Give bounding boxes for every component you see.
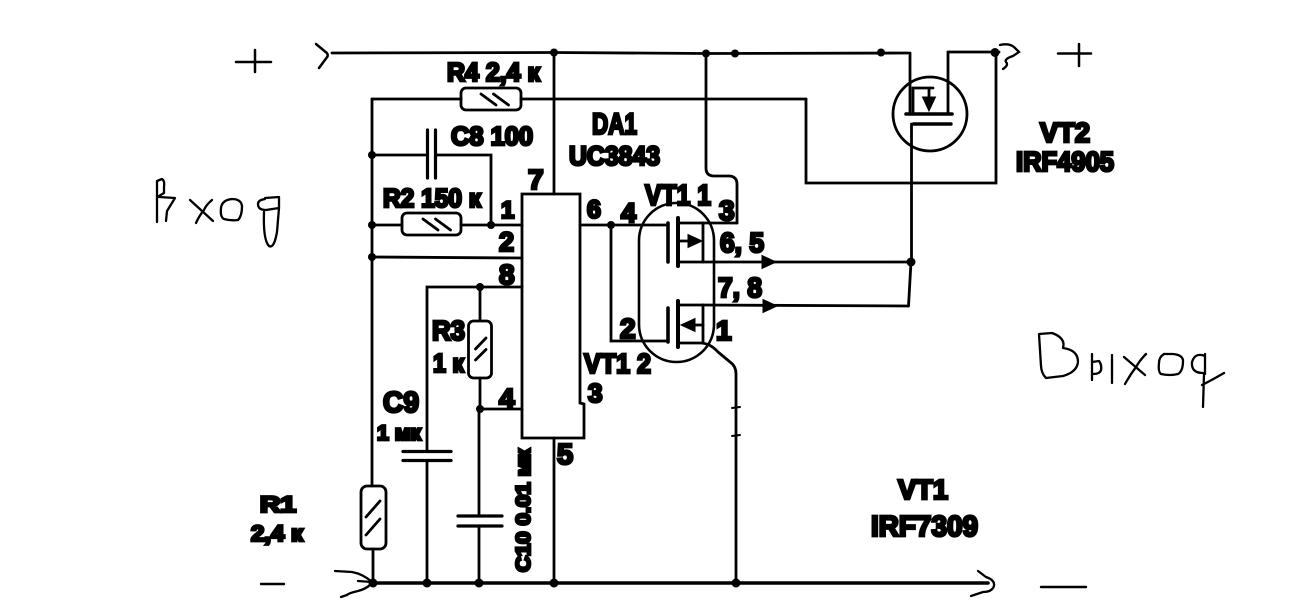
node pin6 split [607, 221, 615, 229]
IC DA1 UC3843 box [522, 194, 584, 438]
wire left bus [372, 99, 373, 583]
svg-text:VT1 2: VT1 2 [584, 348, 651, 379]
plus sign input [236, 50, 271, 72]
wire feedback from output [806, 53, 996, 183]
wire VT2 gate [909, 124, 912, 306]
capacitor C10 [458, 409, 502, 583]
svg-text:1 к: 1 к [433, 348, 465, 378]
svg-text:2: 2 [620, 313, 636, 344]
wire VT1.1 pin3 to rail [706, 54, 737, 224]
svg-text:IRF7309: IRF7309 [871, 511, 978, 543]
resistor R4 [372, 88, 806, 110]
node gnd vt1 [732, 579, 741, 588]
svg-text:4: 4 [621, 198, 636, 228]
svg-text:7: 7 [528, 164, 544, 195]
output arrow bottom [971, 571, 994, 596]
svg-text:2: 2 [499, 227, 514, 257]
wire 6,5 [717, 256, 911, 269]
node gnd C9 [423, 579, 432, 588]
node rail-feedback [991, 48, 1000, 57]
wire 7,8 [703, 300, 908, 313]
svg-text:6, 5: 6, 5 [720, 227, 764, 258]
wire DA1 pin4 [480, 408, 522, 411]
capacitor C9 [403, 452, 451, 584]
minus sign right [1041, 586, 1086, 588]
svg-text:8: 8 [499, 259, 515, 290]
node bus-C8 [368, 151, 376, 159]
svg-text:C10 0.01 мк: C10 0.01 мк [513, 448, 535, 572]
svg-text:4: 4 [499, 383, 515, 414]
capacitor C8 [372, 130, 491, 225]
svg-text:7, 8: 7, 8 [718, 272, 762, 303]
minus sign left [261, 583, 284, 585]
output arrow top [1000, 44, 1019, 69]
node rail-vt1pin3 [702, 50, 710, 58]
svg-text:C8 100: C8 100 [451, 121, 533, 151]
svg-text:3: 3 [719, 195, 735, 226]
wire DA1 pin6 [580, 224, 667, 227]
input arrow [316, 44, 328, 68]
node rail-vt2 [877, 49, 885, 57]
handwritten Vhod [157, 179, 279, 246]
node rail-pin7 [550, 49, 558, 57]
svg-text:UC3843: UC3843 [569, 141, 660, 171]
ground squiggle left [335, 571, 372, 597]
node pin4 junction [476, 405, 484, 413]
node gnd R1 [369, 579, 378, 588]
node gate-65 [907, 258, 916, 267]
node bus-R2 [368, 221, 376, 229]
wire top rail right [948, 51, 999, 54]
svg-text:R1: R1 [260, 492, 296, 517]
node pin1-C8 [487, 221, 495, 229]
transistor VT2 [893, 52, 967, 151]
transistor VT1.1 upper mosfet [668, 218, 737, 266]
transistor VT1.2 lower mosfet [668, 301, 740, 583]
node gnd pin5 [550, 579, 559, 588]
svg-text:5: 5 [557, 439, 573, 471]
svg-text:R4 2,4 к: R4 2,4 к [447, 57, 541, 87]
svg-text:VT2: VT2 [1040, 117, 1090, 148]
svg-text:6: 6 [587, 196, 601, 224]
node bus-pin2 [368, 253, 376, 261]
wire DA1 pin7 to rail [553, 53, 556, 195]
svg-text:VT1 1: VT1 1 [645, 180, 711, 212]
svg-text:R3: R3 [432, 315, 465, 346]
node R3 top [476, 283, 484, 291]
wire bottom rail [374, 581, 988, 585]
svg-text:1 мк: 1 мк [377, 422, 421, 445]
wire DA1 pin2 [372, 257, 522, 258]
wire DA1 pin8 [427, 287, 522, 451]
node gnd C10 [475, 579, 484, 588]
plus sign output [1058, 44, 1091, 66]
svg-text:C9: C9 [383, 387, 419, 419]
svg-text:DA1: DA1 [592, 108, 637, 141]
svg-text:1: 1 [501, 197, 514, 224]
wire DA1 pin5 to ground [553, 438, 556, 583]
svg-text:R2 150 к: R2 150 к [383, 183, 482, 213]
node rail-extra [731, 50, 739, 58]
wire top rail left [332, 53, 908, 54]
transistor VT1 package oval [639, 203, 714, 362]
resistor R2 [372, 213, 522, 235]
svg-text:1: 1 [716, 315, 732, 346]
resistor R3 [469, 287, 492, 409]
resistor R1 [361, 486, 386, 549]
handwritten Vyhod [1039, 333, 1224, 407]
svg-text:2,4 к: 2,4 к [251, 521, 304, 546]
svg-text:3: 3 [588, 378, 602, 408]
wire gate2 [611, 225, 667, 341]
svg-text:IRF4905: IRF4905 [1016, 146, 1114, 177]
svg-text:VT1: VT1 [898, 474, 948, 505]
